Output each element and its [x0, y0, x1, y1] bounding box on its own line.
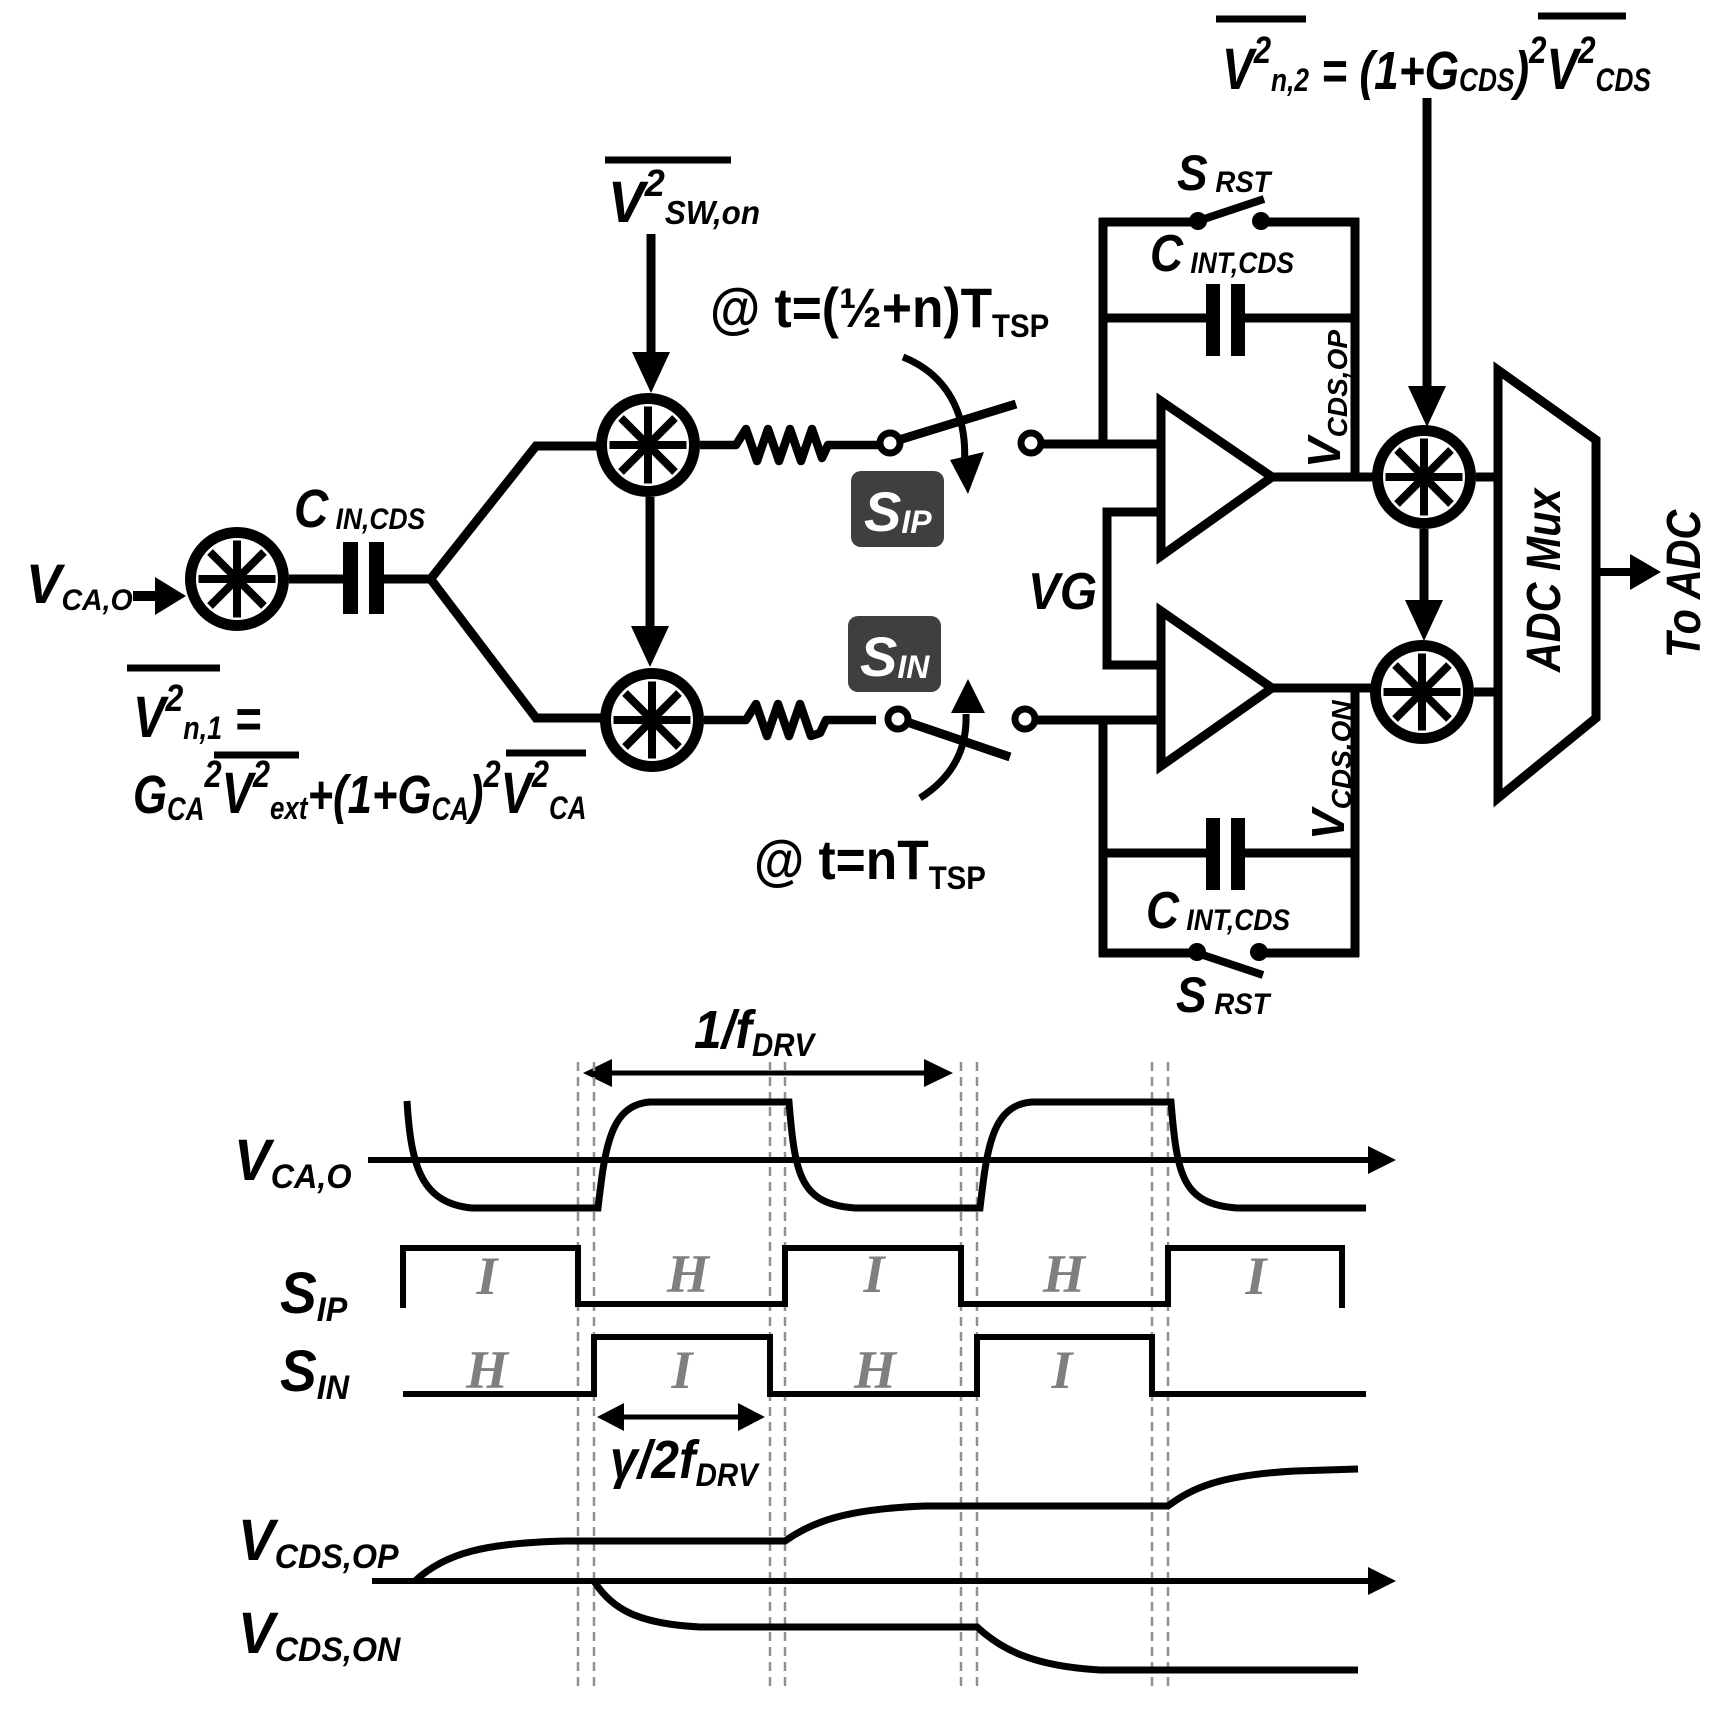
node formula V2SWon [605, 160, 760, 234]
svg-text:I: I [475, 1246, 499, 1306]
svg-text:I: I [670, 1340, 694, 1400]
svg-text:H: H [666, 1244, 711, 1304]
wire input arrow [133, 577, 186, 615]
wire feedback left vertical bottom [1099, 720, 1108, 957]
node S_IN waveform [403, 1337, 1366, 1394]
svg-text:To ADC: To ADC [1657, 509, 1711, 658]
node phase letters S_IP row [475, 1244, 1268, 1306]
wire S_IP to op-amp U1 [1041, 440, 1160, 449]
wire M4 to mux [1476, 473, 1500, 482]
node formula V2n2 [1216, 16, 1651, 102]
svg-text:H: H [465, 1340, 510, 1400]
resistor R1 top [700, 429, 878, 461]
wire gamma/2f_DRV span arrow [597, 1403, 765, 1431]
resistor R2 bottom [704, 704, 876, 736]
switch S_IN [888, 679, 1035, 798]
wire cap to fork junction [384, 575, 432, 584]
wire fork to bottom branch [429, 577, 604, 718]
wire S_IN to op-amp U2 [1035, 716, 1160, 725]
node S_IP label box [851, 471, 944, 547]
mixer M5 [1376, 646, 1469, 739]
wire VG bracket [1107, 512, 1158, 665]
wire arrow from V2SWon into mixer M2 [632, 234, 670, 393]
node ADC Mux label [1517, 487, 1571, 673]
wire feedback bottom rail with S_RST gap [1099, 949, 1359, 958]
wire fork to top branch [429, 446, 600, 581]
svg-text:H: H [853, 1340, 898, 1400]
mixer M4 [1378, 431, 1471, 524]
switch S_RST bottom [1188, 943, 1268, 975]
switch S_RST top [1189, 199, 1270, 230]
wire feedback top rail with S_RST gap [1099, 218, 1359, 227]
wire arrow M2 to M3 [631, 497, 669, 667]
wire To ADC arrow [1596, 554, 1661, 590]
wire V_CDS axis [372, 1567, 1396, 1595]
wire 1/f_DRV span arrow [583, 1059, 953, 1087]
node S_IN label box [848, 616, 941, 692]
wire feedback left vertical top [1099, 218, 1108, 444]
switch S_IP [880, 357, 1041, 494]
svg-text:I: I [1050, 1340, 1074, 1400]
node formula V2n1 [127, 668, 586, 828]
mixer M2 top chopper [602, 399, 695, 492]
node V_CDS,ON waveform [594, 1581, 1358, 1670]
wire U2 output to mixer M5 [1272, 684, 1378, 693]
wire V_CA,O axis [368, 1146, 1396, 1174]
wire U1 output to mixer M4 [1272, 473, 1380, 482]
capacitor C_IN,CDS [343, 542, 384, 614]
mixer M3 bottom chopper [606, 674, 699, 767]
wire feedback right vertical top [1351, 218, 1360, 477]
svg-text:I: I [862, 1244, 886, 1304]
node phase letters S_IN row [465, 1340, 1075, 1400]
svg-text:I: I [1244, 1246, 1268, 1306]
op-amp U1 [1161, 401, 1272, 556]
ADC Mux trapezoid [1498, 370, 1596, 798]
node V_CA,O waveform [407, 1101, 1366, 1208]
svg-text:H: H [1042, 1244, 1087, 1304]
node To ADC label [1657, 509, 1711, 658]
svg-text:VG: VG [1028, 562, 1097, 620]
wire arrow from V2n2 into mixer M4 [1408, 98, 1446, 427]
wire dashed timing guides [578, 1062, 1168, 1688]
wire feedback right vertical bottom [1351, 688, 1360, 957]
svg-text:ADC Mux: ADC Mux [1517, 487, 1571, 673]
wire M1 to C_IN,CDS [289, 575, 345, 584]
capacitor C_INT,CDS top [1103, 284, 1359, 356]
op-amp U2 [1161, 611, 1272, 766]
wire arrow M4 to M5 [1405, 529, 1443, 641]
mixer M1 input chopper [191, 533, 284, 626]
capacitor C_INT,CDS bottom [1103, 818, 1359, 890]
wire M5 to mux [1474, 688, 1500, 697]
node S_IP waveform [403, 1248, 1342, 1308]
node V_CDS,OP waveform [415, 1469, 1358, 1581]
